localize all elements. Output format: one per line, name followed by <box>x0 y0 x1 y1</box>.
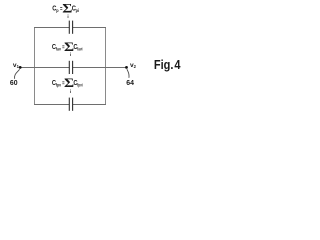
svg-text:pi: pi <box>76 7 79 13</box>
capacitor Cp <box>69 21 72 34</box>
wire: main left segment v1 to capacitor <box>20 67 69 69</box>
label Cfpv = sum Cfpvi <box>52 76 83 94</box>
wire: top branch right segment <box>73 27 106 29</box>
svg-text:fav: fav <box>56 46 62 52</box>
svg-text:Fig. 4: Fig. 4 <box>154 58 181 72</box>
figure caption Fig. 4 <box>154 58 181 72</box>
svg-text:v2: v2 <box>130 62 137 69</box>
wire: left rail <box>34 27 36 105</box>
leader from v2 to 64 <box>127 69 129 78</box>
node v2 terminal dot <box>125 66 128 69</box>
wire: bottom branch left segment <box>34 104 69 106</box>
label Cfav = sum Cfavi <box>52 40 83 57</box>
svg-text:p: p <box>56 7 59 13</box>
capacitor Cfpv <box>69 98 72 111</box>
wire: main right segment capacitor to v2 <box>73 67 127 69</box>
svg-text:favi: favi <box>77 46 82 52</box>
svg-text:60: 60 <box>10 80 18 87</box>
svg-text:i: i <box>70 89 71 94</box>
wire: top branch left segment <box>34 27 69 29</box>
capacitor Cfav <box>69 61 72 74</box>
wire: bottom branch right segment <box>73 104 106 106</box>
svg-text:fpvi: fpvi <box>77 82 82 88</box>
label Cp = sum Cpi <box>52 2 79 19</box>
svg-text:v1: v1 <box>13 62 20 69</box>
node v1 terminal dot <box>19 66 22 69</box>
wire: right rail <box>105 27 107 105</box>
leader from v1 to 60 <box>14 69 19 79</box>
svg-text:i: i <box>67 14 68 19</box>
svg-text:i: i <box>70 52 71 57</box>
svg-text:64: 64 <box>126 80 134 87</box>
svg-text:fpv: fpv <box>56 82 62 88</box>
